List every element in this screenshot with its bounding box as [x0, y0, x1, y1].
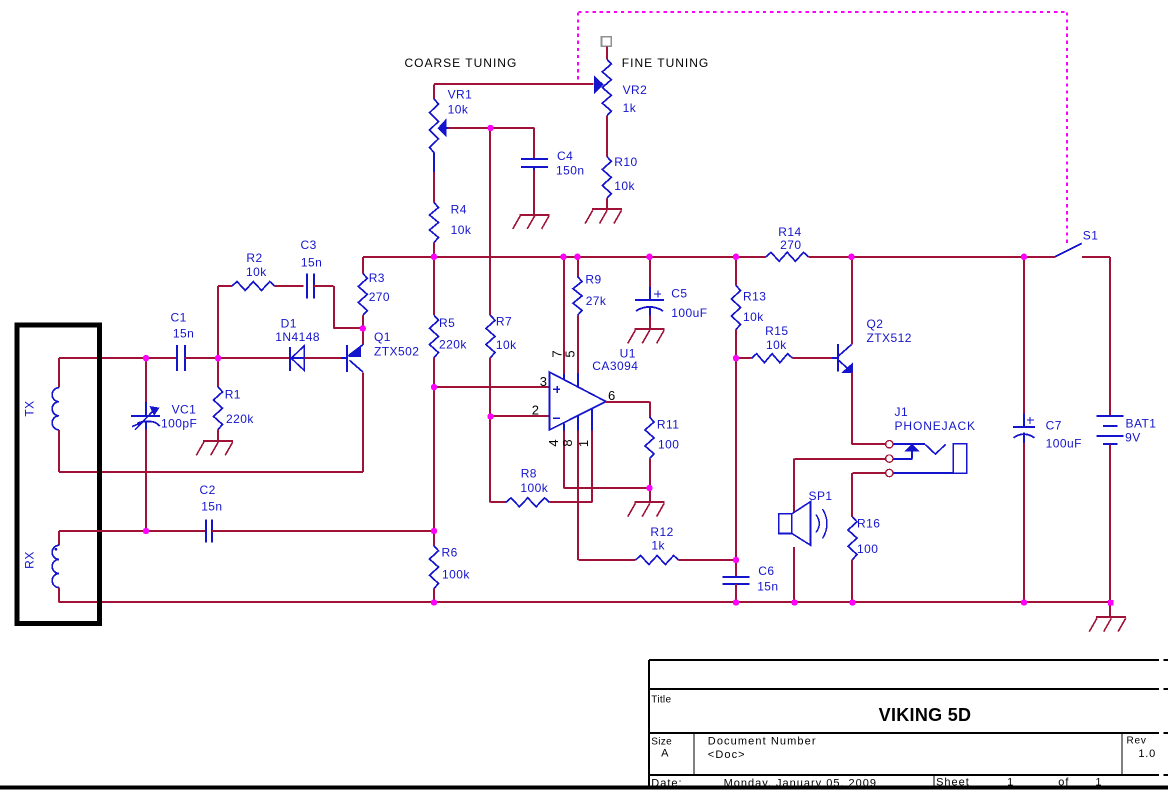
- svg-text:Q1: Q1: [374, 330, 391, 344]
- svg-text:Monday, January 05, 2009: Monday, January 05, 2009: [724, 777, 877, 789]
- svg-text:D1: D1: [281, 316, 297, 330]
- svg-text:15n: 15n: [173, 326, 194, 340]
- svg-text:100: 100: [658, 438, 679, 452]
- svg-text:CA3094: CA3094: [592, 359, 638, 373]
- svg-text:10k: 10k: [246, 265, 267, 279]
- svg-text:R12: R12: [650, 525, 673, 539]
- svg-text:R10: R10: [614, 155, 637, 169]
- svg-text:COARSE TUNING: COARSE TUNING: [405, 56, 518, 70]
- svg-text:Rev: Rev: [1127, 736, 1147, 747]
- svg-text:R9: R9: [585, 273, 601, 287]
- svg-text:R14: R14: [778, 225, 801, 239]
- svg-text:150n: 150n: [556, 164, 585, 178]
- svg-text:Sheet: Sheet: [936, 777, 970, 789]
- svg-text:J1: J1: [895, 405, 909, 419]
- svg-text:Size: Size: [651, 737, 672, 748]
- svg-text:VR2: VR2: [623, 83, 648, 97]
- svg-text:220k: 220k: [439, 338, 467, 352]
- svg-text:3: 3: [540, 374, 547, 389]
- svg-text:R16: R16: [857, 516, 880, 530]
- svg-text:BAT1: BAT1: [1126, 416, 1157, 430]
- svg-text:100uF: 100uF: [671, 306, 707, 320]
- svg-text:VR1: VR1: [448, 88, 473, 102]
- svg-text:Title: Title: [651, 695, 671, 706]
- svg-text:270: 270: [369, 290, 390, 304]
- svg-text:of: of: [1058, 777, 1069, 789]
- svg-text:100uF: 100uF: [1046, 437, 1082, 451]
- svg-text:15n: 15n: [201, 499, 222, 513]
- svg-text:R6: R6: [442, 546, 458, 560]
- svg-text:R5: R5: [439, 316, 455, 330]
- svg-text:1: 1: [1007, 777, 1014, 789]
- svg-text:8: 8: [560, 439, 575, 446]
- svg-text:R13: R13: [743, 290, 766, 304]
- svg-text:R8: R8: [521, 467, 537, 481]
- svg-text:FINE TUNING: FINE TUNING: [622, 56, 709, 70]
- svg-text:6: 6: [608, 388, 615, 403]
- svg-text:TX: TX: [23, 400, 37, 416]
- svg-text:C1: C1: [171, 310, 187, 324]
- svg-text:1k: 1k: [651, 538, 665, 552]
- svg-text:1k: 1k: [623, 101, 637, 115]
- svg-text:270: 270: [780, 238, 801, 252]
- svg-text:C5: C5: [671, 287, 687, 301]
- svg-text:R4: R4: [451, 203, 467, 217]
- svg-text:220k: 220k: [226, 412, 254, 426]
- svg-text:R3: R3: [369, 271, 385, 285]
- svg-text:VC1: VC1: [172, 403, 197, 417]
- svg-text:C4: C4: [557, 149, 573, 163]
- svg-text:R2: R2: [246, 251, 262, 265]
- svg-text:10k: 10k: [766, 338, 787, 352]
- svg-text:S1: S1: [1083, 229, 1099, 243]
- svg-text:Q2: Q2: [867, 317, 884, 331]
- svg-text:C2: C2: [200, 483, 216, 497]
- svg-text:10k: 10k: [451, 223, 472, 237]
- svg-text:SP1: SP1: [809, 489, 833, 503]
- svg-text:15n: 15n: [301, 255, 322, 269]
- svg-text:27k: 27k: [586, 294, 607, 308]
- svg-text:A: A: [661, 748, 669, 760]
- svg-text:100k: 100k: [520, 481, 548, 495]
- svg-text:PHONEJACK: PHONEJACK: [895, 419, 976, 433]
- svg-text:1: 1: [1095, 777, 1102, 789]
- svg-text:1: 1: [576, 440, 591, 447]
- svg-text:C7: C7: [1046, 419, 1062, 433]
- svg-text:100k: 100k: [442, 568, 470, 582]
- svg-text:5: 5: [563, 350, 578, 357]
- svg-text:10k: 10k: [448, 102, 469, 116]
- svg-text:R7: R7: [496, 315, 512, 329]
- svg-text:Document Number: Document Number: [708, 736, 817, 748]
- svg-text:4: 4: [546, 439, 561, 446]
- svg-text:VIKING 5D: VIKING 5D: [879, 705, 972, 725]
- svg-text:9V: 9V: [1125, 430, 1141, 444]
- svg-text:100: 100: [857, 542, 878, 556]
- svg-text:2: 2: [532, 403, 539, 418]
- svg-text:10k: 10k: [496, 338, 517, 352]
- svg-text:R1: R1: [225, 388, 241, 402]
- svg-text:10k: 10k: [743, 310, 764, 324]
- svg-text:1.0: 1.0: [1138, 748, 1156, 760]
- svg-text:RX: RX: [23, 551, 37, 569]
- svg-text:100pF: 100pF: [161, 417, 197, 431]
- svg-text:<Doc>: <Doc>: [708, 749, 746, 761]
- svg-text:R11: R11: [657, 417, 679, 431]
- svg-text:1N4148: 1N4148: [275, 330, 320, 344]
- svg-text:ZTX502: ZTX502: [374, 345, 419, 359]
- svg-text:ZTX512: ZTX512: [867, 331, 912, 345]
- svg-text:10k: 10k: [614, 179, 635, 193]
- svg-text:C3: C3: [301, 238, 317, 252]
- svg-text:Date:: Date:: [651, 777, 682, 789]
- svg-text:15n: 15n: [757, 579, 778, 593]
- svg-text:C6: C6: [758, 564, 774, 578]
- svg-text:R15: R15: [765, 324, 788, 338]
